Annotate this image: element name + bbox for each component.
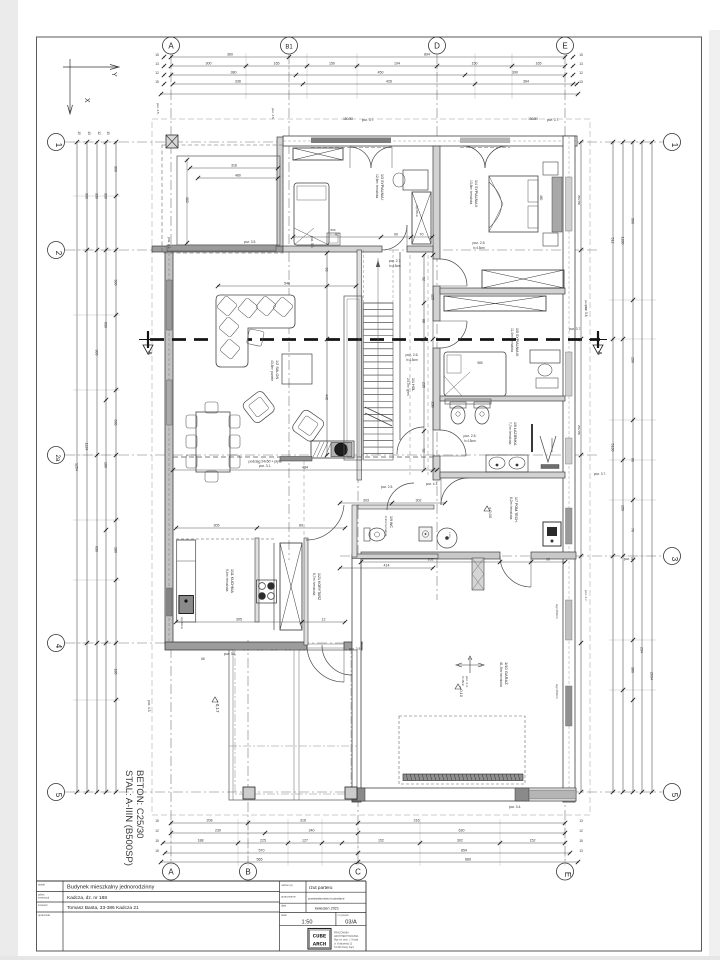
axis circle D top — [429, 37, 446, 54]
annex corner column — [166, 135, 178, 148]
svg-text:414: 414 — [384, 564, 390, 568]
svg-text:poz. 2.6.: poz. 2.6. — [405, 353, 418, 357]
corridor dim line — [338, 499, 447, 506]
tech dim line — [338, 558, 567, 571]
interior wall axis D vertical (bedrooms corridor) — [433, 146, 440, 480]
svg-text:43,8m² panele: 43,8m² panele — [270, 360, 274, 381]
tech room label — [484, 497, 518, 523]
wall between garage and tech room (axis 3) — [361, 552, 576, 559]
roof eave dashed outline — [152, 119, 590, 815]
top dimension stack — [155, 53, 583, 100]
svg-text:poz. 3.4.: poz. 3.4. — [509, 805, 521, 809]
svg-text:15: 15 — [106, 131, 110, 135]
svg-text:13: 13 — [579, 849, 583, 853]
svg-text:13,8m² terrakota: 13,8m² terrakota — [469, 180, 473, 204]
axis circle 3 right — [664, 548, 681, 565]
axis line 5 horizontal — [65, 791, 663, 793]
svg-text:565: 565 — [257, 858, 263, 862]
svg-text:2,3m² terrakota: 2,3m² terrakota — [384, 516, 388, 537]
scattered poz labels — [147, 103, 636, 809]
svg-text:92: 92 — [335, 233, 339, 237]
svg-text:1/21 KORYTARZ: 1/21 KORYTARZ — [317, 573, 321, 601]
section marker A left — [139, 331, 157, 355]
svg-text:Y: Y — [110, 72, 117, 77]
svg-text:poz. 3.6.: poz. 3.6. — [224, 652, 236, 656]
svg-text:89: 89 — [299, 524, 303, 528]
svg-text:Budynek mieszkalny jednorodzin: Budynek mieszkalny jednorodzinny — [67, 885, 155, 891]
axis line 2 horizontal — [65, 249, 600, 251]
bedroom I french door arcs — [350, 147, 392, 168]
svg-text:podciąg 24x50 + płyta: podciąg 24x50 + płyta — [248, 460, 281, 464]
exterior wall left (salon and kitchen) — [165, 248, 173, 645]
axis circle C bottom — [350, 455, 367, 880]
axis circle A bottom — [163, 863, 180, 880]
svg-text:33-300 Nowy Sącz: 33-300 Nowy Sącz — [334, 946, 355, 949]
svg-text:93: 93 — [325, 268, 329, 272]
svg-text:300: 300 — [114, 280, 118, 286]
svg-text:15: 15 — [155, 849, 159, 853]
bedroom II bed — [489, 176, 538, 232]
svg-text:1/1 HOL: 1/1 HOL — [411, 378, 415, 391]
svg-text:– 0,10: – 0,10 — [459, 686, 464, 698]
svg-text:Hg=150cm: Hg=150cm — [555, 604, 559, 619]
kitchen label — [180, 569, 234, 630]
garage window labels — [415, 205, 559, 699]
svg-text:102: 102 — [428, 558, 434, 562]
tech room door from hallway — [441, 478, 468, 505]
svg-text:12: 12 — [322, 618, 326, 622]
svg-text:poz. 2.7.: poz. 2.7. — [389, 259, 401, 263]
svg-text:980: 980 — [477, 361, 483, 365]
bedroom III label — [510, 328, 519, 356]
svg-text:1: 1 — [54, 143, 63, 148]
svg-text:382: 382 — [185, 197, 189, 203]
svg-text:D: D — [434, 42, 440, 51]
svg-text:2034: 2034 — [650, 672, 654, 680]
svg-text:12: 12 — [579, 71, 583, 75]
svg-text:inwestycji: inwestycji — [38, 896, 50, 900]
fridge pantry column — [280, 543, 302, 630]
salon coffee table — [282, 354, 312, 384]
svg-text:125: 125 — [431, 294, 435, 300]
svg-text:kwiecień 2021: kwiecień 2021 — [315, 907, 339, 911]
svg-text:2a: 2a — [54, 455, 60, 462]
svg-text:poz. 3.9.: poz. 3.9. — [349, 647, 361, 651]
svg-text:235: 235 — [422, 382, 426, 388]
WC left wall — [352, 505, 357, 557]
bedroom I interior dim — [291, 233, 434, 240]
svg-text:poz. 3.1.: poz. 3.1. — [259, 464, 271, 468]
bedroom II label — [469, 180, 543, 250]
svg-text:70: 70 — [631, 528, 635, 532]
axis circle 1 left — [48, 134, 65, 151]
svg-text:152: 152 — [530, 839, 536, 843]
fireplace — [311, 441, 354, 458]
WC sink — [419, 527, 432, 541]
logo side text — [334, 932, 359, 949]
svg-text:nr rysunku: nr rysunku — [338, 914, 350, 917]
exterior wall top (axis 1) — [283, 136, 577, 148]
salon armchairs — [241, 390, 325, 444]
svg-text:7,7m² terrakota: 7,7m² terrakota — [508, 422, 512, 445]
svg-text:E: E — [562, 42, 567, 51]
svg-text:303: 303 — [363, 499, 369, 503]
svg-text:305: 305 — [214, 524, 220, 528]
WC toilet — [364, 528, 385, 541]
svg-text:inwestor: inwestor — [38, 903, 48, 907]
svg-text:336: 336 — [235, 80, 241, 84]
hall interior dim — [422, 253, 436, 472]
svg-text:480: 480 — [235, 174, 241, 178]
svg-text:CUBE: CUBE — [313, 933, 327, 940]
exterior wall right (axis E) — [563, 136, 575, 802]
svg-text:689: 689 — [465, 858, 471, 862]
stairwell wall — [357, 250, 400, 480]
svg-text:Hg=85cm: Hg=85cm — [415, 205, 419, 218]
svg-text:9,4m² terrakota: 9,4m² terrakota — [225, 569, 229, 592]
corridor dashed ceiling lines — [410, 255, 428, 475]
svg-text:ARCH: ARCH — [313, 941, 326, 948]
bathroom vanity shelf — [445, 399, 491, 404]
kitchen sink dark — [179, 596, 194, 614]
axis circle 5 left — [48, 784, 65, 801]
svg-text:opracował: opracował — [38, 913, 50, 917]
svg-text:92: 92 — [422, 449, 426, 453]
axis line B1 vertical — [288, 54, 290, 560]
shower partition — [532, 424, 559, 469]
svg-text:5: 5 — [54, 793, 63, 798]
axis circle 4 left — [48, 635, 65, 652]
bathroom label — [463, 422, 517, 446]
title block content — [67, 885, 357, 926]
svg-text:BETON: C25/30: BETON: C25/30 — [134, 770, 145, 838]
right dimension stack — [609, 140, 656, 794]
bedroom I tall wardrobe — [412, 192, 431, 244]
covered terrace annex dashed roof — [162, 145, 283, 253]
svg-text:C: C — [355, 868, 361, 877]
svg-text:Kadcza, dz. nr 188: Kadcza, dz. nr 188 — [67, 895, 107, 901]
svg-text:B: B — [245, 868, 250, 877]
hall label — [405, 353, 418, 396]
axis circle E bottom — [557, 863, 574, 880]
bedroom I nightstands — [327, 228, 340, 245]
svg-text:318: 318 — [231, 164, 237, 168]
svg-text:data: data — [281, 904, 287, 908]
bedroom I door arc — [382, 225, 407, 250]
bedroom III desk — [530, 350, 560, 388]
svg-text:150: 150 — [329, 62, 335, 66]
garage gate dashed approach — [399, 716, 525, 784]
svg-text:560: 560 — [631, 218, 635, 224]
svg-text:300: 300 — [95, 350, 99, 356]
svg-text:Mgr inż. arch. J. Kowal: Mgr inż. arch. J. Kowal — [334, 939, 359, 942]
svg-text:238: 238 — [431, 402, 435, 408]
WC walls — [352, 505, 438, 559]
svg-text:1/9 WC: 1/9 WC — [389, 516, 393, 528]
svg-text:364: 364 — [523, 80, 529, 84]
svg-text:546: 546 — [284, 282, 290, 286]
svg-text:przedsiębiorstwo budowlane: przedsiębiorstwo budowlane — [308, 897, 345, 901]
svg-text:poz. 2.5.: poz. 2.5. — [381, 485, 393, 489]
svg-text:h=15cm: h=15cm — [473, 246, 485, 250]
svg-text:13: 13 — [87, 131, 91, 135]
bedroom III wardrobe — [444, 296, 546, 311]
kitchen interior dim — [174, 524, 347, 625]
garage door arc from corridor — [322, 645, 352, 675]
garage chimney stub — [472, 558, 484, 590]
svg-text:1224: 1224 — [85, 443, 89, 451]
svg-text:poz. 3.5.: poz. 3.5. — [310, 236, 314, 248]
svg-text:6,7m² terrakota: 6,7m² terrakota — [312, 573, 316, 596]
svg-text:nazwa rys.: nazwa rys. — [281, 883, 294, 887]
svg-text:poz. 4.3.: poz. 4.3. — [147, 700, 151, 712]
svg-text:poz. 4.2.: poz. 4.2. — [167, 237, 171, 249]
bathroom door arc — [440, 430, 466, 456]
svg-text:340: 340 — [309, 829, 315, 833]
svg-text:330: 330 — [95, 193, 99, 199]
axis line D vertical — [436, 54, 438, 600]
svg-text:570: 570 — [259, 849, 265, 853]
svg-text:150/80: 150/80 — [528, 117, 538, 121]
kitchen walls — [176, 538, 274, 630]
svg-text:180: 180 — [104, 462, 108, 468]
svg-text:250/150: 250/150 — [577, 195, 581, 206]
bottom dimension stack — [155, 819, 583, 867]
bedroom I desk and chair — [393, 170, 428, 190]
svg-text:302: 302 — [457, 839, 463, 843]
svg-text:h=15cm: h=15cm — [461, 676, 465, 687]
svg-text:Hg=150cm: Hg=150cm — [555, 684, 559, 699]
svg-text:250/150: 250/150 — [577, 425, 581, 436]
axis circle 2a left — [48, 447, 65, 464]
svg-text:70: 70 — [420, 233, 424, 237]
svg-text:316: 316 — [414, 819, 420, 823]
svg-text:894: 894 — [424, 53, 430, 57]
svg-text:234: 234 — [640, 647, 644, 653]
svg-text:1/6 ŁAZIENKA: 1/6 ŁAZIENKA — [513, 422, 517, 446]
salon label — [270, 360, 279, 381]
svg-text:poz. 3.5.: poz. 3.5. — [244, 240, 256, 244]
svg-text:1/2 SALON: 1/2 SALON — [275, 360, 279, 379]
svg-text:180: 180 — [114, 547, 118, 553]
svg-text:208: 208 — [207, 819, 213, 823]
bathroom double sink — [486, 455, 528, 472]
svg-text:X: X — [83, 98, 90, 103]
svg-text:obiekt: obiekt — [38, 883, 45, 887]
staircase — [364, 250, 394, 460]
garage label — [455, 662, 509, 698]
svg-text:1/11 KUCHNIA: 1/11 KUCHNIA — [230, 569, 234, 594]
bedroom I bed — [294, 183, 329, 245]
section marker A right — [589, 331, 607, 355]
tech room door arc — [500, 556, 531, 587]
terrace level label — [212, 697, 220, 713]
entrance door arc — [307, 645, 344, 682]
tech room water tank circle — [437, 528, 457, 548]
axis circle 5 right — [664, 784, 681, 801]
svg-text:305: 305 — [236, 618, 242, 622]
svg-text:poz. 3.7.: poz. 3.7. — [569, 327, 581, 331]
svg-text:854: 854 — [461, 849, 467, 853]
right side inner dim line — [579, 140, 588, 794]
bathroom toilet and bidet — [450, 402, 490, 424]
svg-text:630: 630 — [459, 829, 465, 833]
svg-text:poz. 3.7.: poz. 3.7. — [547, 118, 559, 122]
svg-text:15: 15 — [155, 819, 159, 823]
bedroom II long wardrobe — [482, 270, 564, 288]
cube arch logo — [308, 929, 331, 950]
svg-text:Tomasz Basta, 33-386 Kadcza 21: Tomasz Basta, 33-386 Kadcza 21 — [67, 905, 139, 911]
salon sofa — [216, 295, 295, 367]
svg-text:426: 426 — [386, 80, 392, 84]
coordinate origin marker XY — [63, 59, 119, 114]
axis circle B1 top — [281, 37, 298, 54]
svg-text:150: 150 — [472, 62, 478, 66]
garage sectional gate dark bar — [403, 774, 523, 781]
svg-text:152: 152 — [378, 839, 384, 843]
svg-text:1: 1 — [670, 143, 679, 148]
svg-text:630: 630 — [104, 322, 108, 328]
svg-text:300: 300 — [206, 62, 212, 66]
svg-text:330: 330 — [104, 193, 108, 199]
svg-text:150: 150 — [621, 505, 625, 511]
svg-text:13: 13 — [579, 62, 583, 66]
svg-text:03/A: 03/A — [345, 920, 357, 926]
WC label — [384, 516, 393, 537]
svg-text:1:50: 1:50 — [302, 920, 313, 926]
axis line 1 horizontal — [65, 141, 663, 143]
tech room boiler — [543, 522, 561, 546]
dining table with chairs — [186, 402, 240, 482]
svg-text:15: 15 — [579, 53, 583, 57]
svg-text:13: 13 — [155, 62, 159, 66]
axis line A vertical — [170, 54, 172, 862]
wall bedroom III / bathroom — [440, 396, 565, 401]
salon low wall hatched by fireplace — [280, 457, 312, 462]
svg-text:E: E — [563, 872, 572, 877]
svg-text:450: 450 — [378, 71, 384, 75]
steel note vertical text — [123, 770, 145, 866]
left dimension stack — [73, 131, 120, 794]
svg-text:165: 165 — [274, 62, 280, 66]
axis circle 2 left — [48, 242, 65, 259]
svg-text:B1: B1 — [285, 45, 293, 51]
interior wall salon top (axis 2) — [152, 246, 433, 252]
svg-text:poz. 3.7.: poz. 3.7. — [624, 557, 636, 561]
svg-text:194: 194 — [394, 62, 400, 66]
kitchen door arc — [306, 505, 344, 540]
svg-text:h=15cm: h=15cm — [389, 264, 401, 268]
interior wall annex right vertical — [277, 137, 283, 246]
svg-text:41,5m² terrakota: 41,5m² terrakota — [499, 662, 503, 687]
bedroom II double door arcs — [463, 146, 507, 168]
svg-text:380: 380 — [231, 71, 237, 75]
svg-text:15: 15 — [579, 839, 583, 843]
corridor door arc by WC — [387, 483, 414, 510]
annex bottom wall hatched — [167, 245, 276, 251]
svg-text:20,7m² gres: 20,7m² gres — [406, 378, 410, 396]
axis line E vertical — [564, 54, 566, 862]
bedroom I wardrobe — [293, 148, 343, 160]
stair closet — [344, 296, 362, 460]
svg-text:12: 12 — [579, 829, 583, 833]
bedroom III door arc — [440, 321, 467, 348]
svg-text:88: 88 — [422, 319, 426, 323]
terrace outline bottom-left — [229, 650, 357, 800]
svg-text:1280: 1280 — [621, 237, 625, 245]
garage bottom wall (axis 5) — [352, 788, 576, 801]
svg-text:66: 66 — [201, 657, 205, 661]
svg-text:306: 306 — [114, 166, 118, 172]
svg-text:316: 316 — [300, 819, 306, 823]
svg-text:ARCHITEKTONICZNA: ARCHITEKTONICZNA — [334, 935, 359, 938]
svg-text:380: 380 — [631, 667, 635, 673]
svg-text:360: 360 — [227, 53, 233, 57]
svg-text:390: 390 — [512, 71, 518, 75]
salon beam dashed line — [173, 457, 433, 468]
bedroom II door arc — [440, 259, 467, 286]
bedroom II nightstands and wardrobe strip — [543, 162, 562, 246]
garage left wall — [352, 556, 361, 802]
svg-text:630: 630 — [95, 546, 99, 552]
svg-text:630: 630 — [114, 420, 118, 426]
kitchen hob — [257, 580, 277, 603]
svg-text:poz. 4.3.: poz. 4.3. — [426, 482, 438, 486]
svg-text:A: A — [168, 868, 174, 877]
svg-text:ul. Krakowska 12: ul. Krakowska 12 — [334, 942, 353, 945]
svg-text:h=15cm: h=15cm — [464, 439, 476, 443]
corridor label — [312, 573, 321, 601]
svg-text:12: 12 — [97, 131, 101, 135]
svg-text:opracowanie: opracowanie — [281, 895, 296, 899]
annex interior dims — [185, 158, 280, 245]
svg-text:15: 15 — [77, 131, 81, 135]
svg-text:566: 566 — [330, 228, 335, 232]
svg-text:3: 3 — [670, 557, 679, 562]
svg-text:80: 80 — [631, 458, 635, 462]
svg-text:12: 12 — [155, 71, 159, 75]
garage slope marker cross — [456, 656, 484, 688]
svg-text:11,0m² terrakota: 11,0m² terrakota — [510, 328, 514, 352]
svg-text:PRACOWNIA: PRACOWNIA — [334, 932, 349, 935]
svg-text:225: 225 — [260, 839, 266, 843]
svg-text:512: 512 — [611, 238, 615, 244]
svg-text:330: 330 — [85, 193, 89, 199]
svg-text:230: 230 — [215, 829, 221, 833]
svg-text:15: 15 — [155, 53, 159, 57]
svg-text:poz. 3.7.: poz. 3.7. — [584, 590, 588, 602]
svg-text:484: 484 — [302, 466, 308, 470]
svg-text:1/4 SYPIALNIA II: 1/4 SYPIALNIA II — [474, 180, 478, 207]
wall bedroom II / III — [440, 288, 565, 294]
svg-text:460: 460 — [539, 195, 543, 201]
svg-text:15: 15 — [155, 839, 159, 843]
bedroom I label — [375, 174, 384, 200]
bathroom shower — [540, 436, 556, 462]
svg-text:A: A — [168, 42, 174, 51]
svg-text:skala: skala — [281, 914, 287, 917]
axis line B vertical bottom — [247, 640, 249, 862]
svg-text:poz. 2.5.: poz. 2.5. — [472, 241, 485, 245]
svg-text:1/10 GARAŻ: 1/10 GARAŻ — [504, 662, 509, 685]
svg-text:150/80: 150/80 — [343, 117, 353, 121]
svg-text:1254: 1254 — [75, 463, 79, 471]
bedroom III bed — [444, 352, 506, 396]
salon interior dims — [171, 251, 439, 538]
axis circle E top — [557, 37, 574, 54]
svg-text:rzut parteru: rzut parteru — [309, 885, 333, 890]
vestibule wall — [304, 538, 308, 645]
